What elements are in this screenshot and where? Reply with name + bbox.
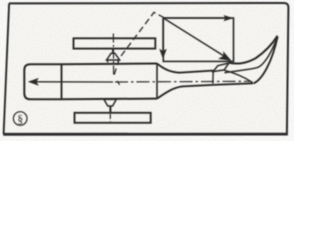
svg-text:§: §: [17, 114, 23, 126]
